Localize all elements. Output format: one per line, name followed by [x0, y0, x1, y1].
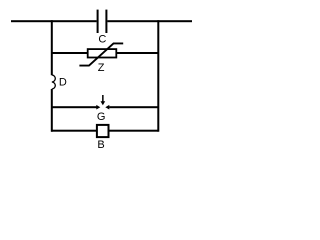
wire: spark gap row left segment	[51, 106, 97, 108]
varistor Z body	[88, 49, 117, 57]
wire: top bus left segment	[11, 20, 97, 22]
svg-text:C: C	[98, 34, 106, 46]
spark gap G	[96, 95, 109, 110]
wire: varistor row left segment	[51, 52, 88, 54]
wire: bottom row right segment	[110, 130, 159, 132]
wire: bottom row left segment	[51, 130, 97, 132]
wire: spark gap row right segment	[109, 106, 158, 108]
svg-text:G: G	[97, 111, 106, 123]
svg-text:D: D	[59, 77, 67, 89]
wire: right rail	[157, 20, 159, 132]
wire: varistor row right segment	[117, 52, 159, 54]
box B	[97, 125, 109, 137]
inductor D	[52, 75, 56, 89]
capacitor C	[97, 10, 108, 33]
wire: left rail lower segment	[51, 89, 53, 132]
svg-text:B: B	[97, 139, 104, 151]
svg-text:Z: Z	[98, 62, 105, 74]
wire: left rail upper segment	[51, 20, 53, 75]
wire: top bus right segment	[107, 20, 192, 22]
varistor Z diagonal stroke	[79, 43, 123, 65]
